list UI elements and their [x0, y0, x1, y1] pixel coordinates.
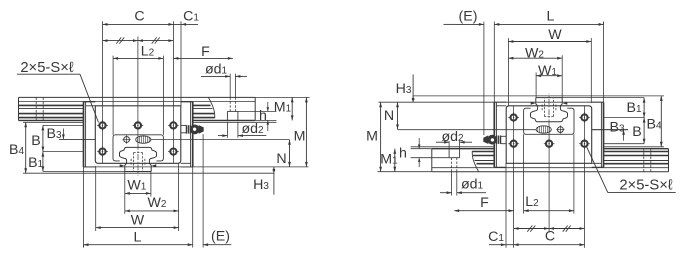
svg-text:M: M: [294, 129, 306, 145]
(E) tail extension (right view): [444, 23, 456, 25]
svg-text:F: F: [480, 195, 489, 211]
svg-text:B: B: [31, 133, 40, 149]
svg-text:F: F: [201, 44, 210, 60]
svg-text:L: L: [134, 230, 142, 246]
svg-text:N: N: [276, 151, 286, 167]
dimension od2 (right view): [436, 141, 449, 143]
svg-text:M: M: [366, 129, 378, 145]
svg-text:W: W: [131, 213, 145, 229]
svg-text:W: W: [548, 27, 562, 43]
svg-text:h: h: [259, 108, 267, 124]
left view: [19, 21, 310, 247]
svg-text:2×5-S×ℓ: 2×5-S×ℓ: [20, 60, 74, 76]
svg-text:2×5-S×ℓ: 2×5-S×ℓ: [619, 178, 673, 194]
svg-text:C: C: [134, 9, 144, 25]
svg-text:(E): (E): [211, 229, 230, 245]
right view (rotated 180&#176;): [378, 22, 669, 248]
svg-text:C: C: [545, 229, 555, 245]
svg-text:B: B: [632, 124, 641, 140]
dimension od2 (left view): [218, 135, 227, 137]
svg-text:L: L: [547, 9, 555, 25]
svg-text:h: h: [399, 146, 407, 162]
svg-text:N: N: [384, 108, 394, 124]
svg-text:(E): (E): [459, 8, 478, 24]
